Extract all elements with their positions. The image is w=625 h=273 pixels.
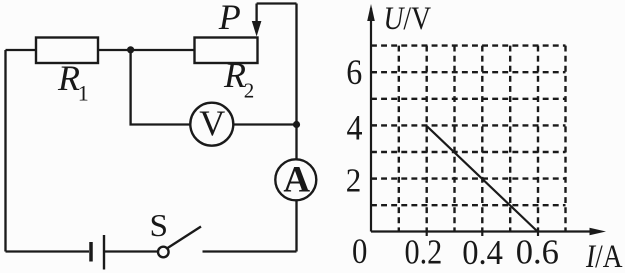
resistor R2 rheostat body — [195, 38, 258, 64]
gridline horizontal y=7 — [371, 44, 566, 46]
switch S lever — [167, 227, 201, 249]
svg-text:0.6: 0.6 — [516, 233, 559, 272]
gridline horizontal y=4 — [371, 124, 566, 126]
ammeter A1 circle — [275, 159, 316, 200]
gridline vertical x=0.3 — [453, 46, 455, 232]
wire voltmeter to right node — [233, 123, 296, 125]
gridline horizontal y=3 — [371, 151, 566, 153]
svg-text:A: A — [283, 160, 310, 201]
switch S pivot circle — [158, 247, 169, 258]
slider P arrowhead — [252, 21, 262, 37]
svg-text:I/A: I/A — [585, 239, 622, 273]
gridline horizontal y=1 — [371, 204, 566, 206]
wire R1 to node — [98, 49, 131, 51]
tick x=0.6 — [537, 232, 539, 237]
y axis — [370, 8, 372, 232]
gridline vertical x=0.2 — [426, 46, 428, 232]
node junction dot left — [127, 46, 134, 53]
gridline vertical x=0.4 — [481, 46, 483, 232]
gridline vertical x=0.5 — [509, 46, 511, 232]
svg-text:1: 1 — [78, 81, 89, 106]
wire node to voltmeter branch — [131, 50, 191, 125]
voltmeter U1 circle — [190, 103, 233, 146]
wire top-left to R1 — [6, 49, 37, 51]
wire bottom right segment — [203, 250, 297, 252]
gridline horizontal y=6 — [371, 71, 566, 73]
wire slider stem — [255, 4, 257, 24]
svg-text:V: V — [199, 103, 225, 143]
x axis — [371, 230, 598, 232]
svg-text:U/V: U/V — [384, 1, 432, 37]
wire top across — [257, 2, 297, 4]
svg-text:2: 2 — [346, 163, 362, 200]
wire node to R2 — [131, 49, 195, 51]
tick x=0.2 — [426, 232, 428, 237]
y axis arrowhead — [367, 4, 375, 21]
gridline horizontal y=2 — [371, 177, 566, 179]
wire battery to bottom-left — [6, 250, 90, 252]
data line U-I — [427, 126, 537, 231]
node junction dot right — [293, 121, 300, 128]
gridline horizontal y=5 — [371, 98, 566, 100]
svg-text:2: 2 — [244, 78, 255, 102]
tick y=4 — [371, 124, 377, 126]
svg-text:0: 0 — [352, 231, 367, 271]
svg-text:R: R — [223, 55, 246, 95]
svg-text:S: S — [150, 207, 169, 243]
svg-text:0.4: 0.4 — [462, 233, 503, 272]
resistor R1 — [36, 38, 98, 64]
gridline vertical right border — [564, 46, 566, 232]
wire left vertical — [4, 50, 6, 252]
gridline vertical x=0.6 — [537, 46, 539, 232]
svg-text:6: 6 — [346, 52, 362, 92]
battery short plate — [89, 242, 93, 262]
wire right vertical upper — [295, 4, 297, 161]
svg-text:R: R — [57, 58, 80, 98]
wire ammeter to bottom — [295, 201, 297, 252]
svg-text:P: P — [218, 0, 241, 37]
svg-text:4: 4 — [347, 107, 363, 147]
wire switch to battery — [104, 250, 158, 252]
x axis arrowhead — [590, 228, 607, 236]
battery long plate — [103, 235, 105, 270]
tick y=6 — [371, 71, 377, 73]
gridline vertical x=0.1 — [398, 46, 400, 232]
tick y=2 — [371, 178, 377, 180]
svg-text:0.2: 0.2 — [405, 233, 443, 272]
tick x=0.4 — [481, 232, 483, 237]
